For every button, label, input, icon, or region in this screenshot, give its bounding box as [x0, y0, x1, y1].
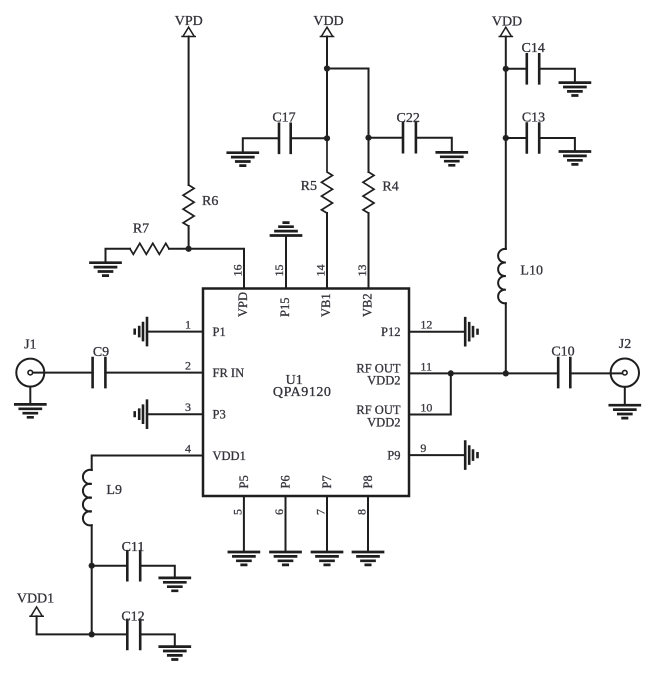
svg-text:9: 9	[420, 441, 426, 455]
wire L10 to RF OUT node	[505, 303, 507, 373]
connector J2	[611, 359, 639, 387]
ground at pin 7	[312, 552, 342, 565]
capacitor C14	[527, 54, 539, 83]
wire C13 right to ground	[539, 138, 575, 152]
svg-text:4: 4	[185, 442, 191, 456]
svg-text:VDD: VDD	[313, 14, 343, 29]
svg-text:8: 8	[355, 509, 369, 515]
wire C17 left to ground	[243, 138, 279, 152]
svg-text:7: 7	[314, 509, 328, 515]
svg-text:12: 12	[420, 318, 432, 332]
flipped ground above pin 15	[271, 223, 301, 236]
capacitor C22	[403, 123, 416, 152]
wire R4 to pin 13	[368, 213, 370, 289]
svg-text:VB2: VB2	[361, 293, 375, 317]
connector J1	[16, 359, 44, 387]
wire ground to pin 15	[285, 236, 287, 289]
svg-text:R7: R7	[133, 222, 149, 237]
wire R5 to pin 14	[326, 213, 328, 289]
wire C17 right to node	[291, 137, 327, 139]
svg-text:C14: C14	[522, 41, 545, 56]
svg-text:6: 6	[272, 509, 286, 515]
svg-text:C9: C9	[93, 345, 109, 360]
capacitor C11	[127, 551, 140, 580]
svg-text:P12: P12	[381, 325, 400, 339]
rotated ground at pin 9	[465, 442, 477, 469]
node C12 junction	[89, 631, 95, 637]
wire node to C12	[92, 633, 128, 635]
svg-text:C22: C22	[397, 111, 420, 126]
J1 center pin	[28, 370, 33, 375]
rotated ground at pin 12	[465, 318, 477, 345]
ground at C22	[437, 152, 467, 165]
wire node to C11	[92, 565, 128, 567]
svg-text:VB1: VB1	[319, 293, 333, 317]
svg-text:J2: J2	[619, 337, 631, 352]
wire VDD stem	[326, 37, 328, 139]
svg-text:13: 13	[355, 265, 369, 277]
svg-text:3: 3	[185, 400, 191, 414]
svg-text:11: 11	[420, 359, 432, 373]
node VDD branch junction	[324, 65, 330, 71]
op-amp U1 QPA9120 body	[203, 289, 409, 497]
wire pin 12	[409, 331, 465, 333]
capacitor C10	[558, 358, 570, 387]
wire pin 3	[147, 413, 203, 415]
capacitor C17	[279, 124, 291, 153]
ground at C11	[160, 578, 190, 591]
node C22 junction	[365, 135, 371, 141]
svg-text:VPD: VPD	[175, 14, 203, 29]
svg-text:R6: R6	[202, 194, 218, 209]
svg-text:C11: C11	[122, 540, 145, 555]
svg-text:P3: P3	[213, 407, 226, 421]
svg-text:QPA9120: QPA9120	[273, 385, 332, 400]
svg-text:15: 15	[272, 265, 286, 277]
wire pin 10	[409, 373, 451, 414]
wire C10 to J2	[570, 372, 625, 374]
svg-text:10: 10	[420, 401, 432, 415]
resistor R5	[322, 138, 333, 213]
wire VDD1 to node	[37, 616, 92, 634]
wire J1 to ground	[29, 387, 31, 405]
wire pin 7 to ground	[326, 496, 328, 552]
wire J2 to ground	[624, 387, 626, 405]
ground at J1	[15, 404, 45, 417]
power symbol VDD right	[499, 27, 512, 36]
node C17 junction	[324, 135, 330, 141]
capacitor C12	[127, 620, 140, 649]
ground at C17	[228, 153, 258, 166]
wire C14 right to ground	[539, 69, 575, 83]
ground at pin 6	[271, 552, 301, 565]
node R6 R7 junction	[186, 246, 192, 252]
ground at pin 5	[229, 552, 259, 565]
svg-text:C10: C10	[551, 345, 574, 360]
power symbol VPD	[182, 27, 195, 36]
power symbol VDD center	[320, 27, 333, 36]
svg-text:R5: R5	[301, 179, 317, 194]
svg-text:FR IN: FR IN	[213, 366, 245, 380]
svg-text:VDD1: VDD1	[213, 449, 246, 463]
resistor R7	[130, 243, 169, 254]
svg-text:16: 16	[231, 265, 245, 277]
ground at C12	[160, 647, 190, 660]
wire C9 to pin 2	[105, 372, 203, 374]
ground at C13	[560, 152, 590, 165]
wire node to pin 16	[169, 249, 244, 289]
wire C11 right to ground	[140, 566, 175, 578]
svg-text:P8: P8	[361, 475, 375, 488]
wire pin 9	[409, 454, 465, 456]
ground at J2	[610, 405, 640, 418]
node L10 junction	[503, 370, 509, 376]
wire R7 left to ground	[106, 249, 131, 263]
svg-text:2: 2	[185, 359, 191, 373]
node C14 junction	[503, 66, 509, 72]
ground at pin 8	[353, 552, 383, 565]
svg-text:P5: P5	[237, 475, 251, 488]
wire VDD right stem	[505, 37, 507, 249]
svg-text:VDD1: VDD1	[17, 591, 54, 606]
J2 center pin	[623, 370, 628, 375]
resistor R6	[183, 185, 194, 226]
wire pin 8 to ground	[367, 496, 369, 552]
svg-text:P9: P9	[387, 448, 400, 462]
svg-text:VDD2: VDD2	[367, 373, 400, 387]
svg-text:P15: P15	[278, 298, 292, 317]
svg-text:P1: P1	[213, 325, 226, 339]
wire J1 to C9	[30, 372, 92, 374]
resistor R4	[363, 172, 374, 213]
wire pin 6 to ground	[285, 496, 287, 552]
svg-text:VDD: VDD	[492, 15, 522, 30]
wire node to C13	[506, 137, 527, 139]
ground at C14	[560, 83, 590, 96]
svg-text:J1: J1	[24, 337, 36, 352]
svg-text:C12: C12	[121, 609, 144, 624]
power symbol VDD1	[30, 607, 43, 616]
wire R6 bottom to node	[188, 226, 190, 249]
svg-text:C13: C13	[522, 111, 545, 126]
svg-text:5: 5	[230, 509, 244, 515]
svg-text:L9: L9	[106, 483, 122, 498]
svg-text:P7: P7	[320, 475, 334, 488]
node C11 junction	[89, 563, 95, 569]
capacitor C13	[527, 124, 539, 153]
wire node to C14	[506, 68, 527, 70]
rotated ground at pin 1	[135, 318, 147, 345]
wire C12 right to ground	[140, 634, 175, 646]
wire VDD branch to R4 column	[327, 69, 369, 138]
inductor L10	[498, 249, 506, 303]
svg-text:R4: R4	[382, 180, 398, 195]
wire pin 4 to L9	[92, 456, 203, 471]
svg-text:VPD: VPD	[236, 292, 250, 317]
wire pin 5 to ground	[243, 496, 245, 552]
svg-text:1: 1	[185, 318, 191, 332]
svg-text:C17: C17	[272, 110, 295, 125]
ground at R7	[91, 263, 121, 276]
inductor L9	[83, 470, 92, 526]
svg-text:14: 14	[314, 265, 328, 277]
node C13 junction	[503, 135, 509, 141]
wire pin 1	[147, 331, 203, 333]
wire VPD stem to R6	[188, 37, 190, 186]
rotated ground at pin 3	[135, 401, 147, 428]
wire C22 left to node	[369, 137, 404, 139]
wire L9 down to C12 node	[91, 525, 93, 634]
svg-text:P6: P6	[279, 475, 293, 488]
wire C22 node to R4	[368, 138, 370, 172]
svg-text:L10: L10	[520, 263, 543, 278]
wire C22 right to ground	[416, 138, 452, 153]
wire pin 11 RF OUT to C10	[409, 372, 558, 374]
capacitor C9	[93, 358, 106, 387]
node pin10 junction	[448, 370, 454, 376]
svg-text:VDD2: VDD2	[367, 415, 400, 429]
